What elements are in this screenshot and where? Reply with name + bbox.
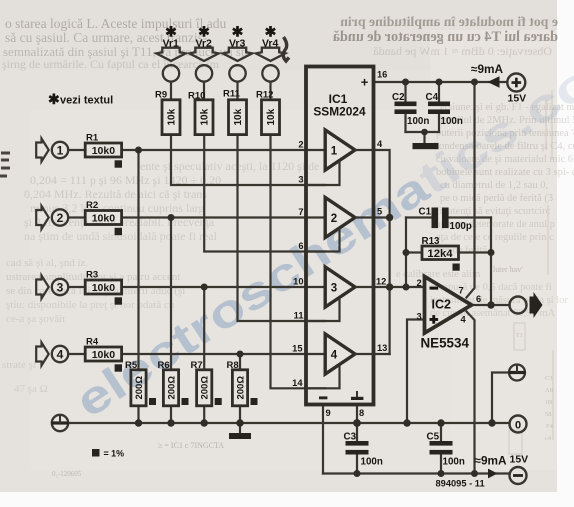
input terminal 1 circle [52, 142, 68, 158]
svg-text:e pot fi modulate în amplitudi: e pot fi modulate în amplitudine prin [340, 14, 558, 29]
wire amp2 ctl inner [306, 229, 340, 252]
svg-text:6: 6 [298, 241, 303, 251]
svg-text:15V: 15V [508, 93, 527, 105]
wire earth terminal to ground bus [492, 373, 509, 424]
svg-text:10k: 10k [167, 108, 178, 125]
svg-text:C4: C4 [426, 92, 439, 103]
VCA amp 4 [325, 334, 355, 374]
IC1 labels [313, 75, 368, 119]
svg-text:≈9mA: ≈9mA [475, 454, 508, 468]
ground bar under C2 C4 [413, 143, 439, 149]
resistor R12 [262, 100, 280, 135]
wire amp outputs to edge [355, 149, 374, 151]
watermark electroschematics.com [66, 24, 574, 428]
svg-text:ente şi speculativ aceşti, la: ente şi speculativ aceşti, la 1120 şi de [140, 159, 320, 173]
wire drop row3 to R7 [203, 287, 205, 370]
wire IC1 pin9 to negative bus [322, 405, 324, 474]
resistor R11 [229, 100, 247, 135]
svg-text:8: 8 [359, 408, 364, 418]
wire R11 column to IC1 pin11 [238, 135, 326, 321]
earth terminal right [509, 365, 526, 381]
input terminal 4 circle [52, 346, 68, 362]
svg-text:3: 3 [417, 312, 422, 322]
wire R5 to ground bus [137, 406, 139, 423]
resistor R5 [131, 370, 146, 406]
svg-text:4: 4 [377, 139, 383, 149]
IC1 inner ground mark [351, 391, 363, 400]
svg-text:10k0: 10k0 [92, 282, 116, 294]
svg-text:100n: 100n [443, 457, 465, 468]
wire IC2 pin4 to negative bus [467, 312, 475, 474]
svg-text:C1: C1 [419, 207, 432, 218]
svg-text:13: 13 [377, 343, 387, 353]
svg-text:✱: ✱ [48, 91, 60, 107]
svg-text:4: 4 [57, 348, 64, 362]
VCA amp 2 [325, 198, 355, 238]
svg-text:R11: R11 [223, 89, 241, 100]
svg-text:894095 - 11: 894095 - 11 [436, 479, 485, 489]
svg-text:10k0: 10k0 [92, 145, 116, 157]
svg-text:58: 58 [545, 411, 552, 418]
svg-text:şirng de urmările. Cu faptul c: şirng de urmările. Cu faptul ca el încea… [2, 57, 220, 71]
negative supply bus [323, 472, 510, 474]
svg-text:R5: R5 [125, 360, 138, 371]
resistor R1 [85, 143, 121, 157]
svg-text:100n: 100n [407, 116, 429, 127]
svg-text:pe o mică perlă de ferită (3: pe o mică perlă de ferită (3 [440, 193, 553, 204]
wire C4 stem [438, 82, 440, 102]
note vezi textul [48, 91, 113, 107]
svg-text:200Ω: 200Ω [236, 376, 247, 400]
svg-text:2: 2 [331, 213, 337, 225]
input terminal 3 circle [52, 279, 68, 295]
svg-text:F4: F4 [546, 423, 554, 430]
svg-text:C3: C3 [344, 432, 357, 443]
wire R7 to ground bus [203, 406, 205, 423]
svg-text:5: 5 [377, 207, 382, 217]
wire IC1 pin8 to ground bus [356, 405, 358, 424]
svg-text:15V: 15V [510, 454, 529, 466]
svg-text:A8: A8 [545, 387, 553, 394]
supply arrow 9mA bottom [488, 469, 498, 479]
svg-text:11: 11 [294, 311, 304, 321]
wire IC1 pin4 output to bus [374, 150, 390, 354]
wire C5 stems [440, 423, 442, 441]
wire drop row1 to R5 [137, 150, 139, 370]
svg-text:14: 14 [292, 378, 303, 388]
IC1 box [306, 67, 374, 405]
svg-text:R1: R1 [86, 133, 99, 144]
svg-text:2: 2 [298, 140, 303, 150]
svg-text:1: 1 [331, 146, 338, 158]
capacitor C4 [426, 92, 463, 127]
wire drop row2 to R6 [170, 218, 172, 370]
wire supply rail pin16 [374, 81, 508, 83]
svg-text:C5: C5 [427, 432, 440, 443]
svg-text:15: 15 [292, 344, 302, 354]
svg-text:strate şi: strate şi [2, 359, 36, 371]
IC1 inner minus mark [319, 396, 327, 399]
svg-text:100p: 100p [450, 221, 472, 232]
svg-text:2: 2 [417, 278, 422, 288]
VCA amp 3 [325, 267, 355, 307]
wire IC1 pin12 output to IC2 pin2 [374, 286, 425, 288]
svg-text:R10: R10 [188, 91, 205, 102]
wire C3 stems [356, 423, 358, 441]
wire R12 column to IC1 pin14 [271, 135, 326, 389]
ground bus [68, 422, 509, 424]
svg-text:10k: 10k [233, 108, 244, 125]
wire amp3 ctl inner [306, 298, 340, 321]
zero terminal [510, 416, 527, 433]
svg-text:aţa de cele ce regulile prin c: aţa de cele ce regulile prin c [436, 232, 554, 243]
wire IC1 pin5 output [374, 216, 390, 218]
svg-text:vezi textul: vezi textul [60, 95, 113, 107]
svg-text:100n: 100n [361, 457, 383, 468]
wire R6 to ground bus [170, 406, 172, 423]
1% squares at R1-R4 [115, 160, 122, 167]
input terminal 1 arrow [36, 139, 49, 162]
wire row3 from input to IC1 pin10 [68, 286, 85, 288]
wire R13 row [406, 251, 422, 253]
svg-text:R12: R12 [256, 90, 273, 101]
svg-text:Observaţie: 0 dBm ≈ 1 mW pe ba: Observaţie: 0 dBm ≈ 1 mW pe bandă [373, 44, 552, 58]
wire IC1 pin13 output [374, 353, 390, 355]
svg-text:47 şa Ω: 47 şa Ω [14, 383, 48, 395]
svg-text:T1: T1 [516, 333, 523, 339]
resistor R3 [85, 280, 121, 294]
capacitor C2 [392, 92, 429, 127]
svg-text:12k4: 12k4 [427, 248, 453, 260]
svg-text:R9: R9 [155, 90, 167, 101]
svg-text:7: 7 [298, 207, 303, 217]
capacitor C5 [427, 432, 465, 468]
supply arrow 9mA top [488, 76, 500, 87]
resistor R6 [163, 370, 178, 406]
resistor R10 [195, 100, 213, 135]
wire row4 from input to IC1 pin15 [68, 353, 85, 355]
ground bar under R8 [229, 423, 251, 439]
svg-text:ştiu: disponibile la preţ şi n: ştiu: disponibile la preţ şi nor odată c… [6, 299, 175, 311]
svg-text:200Ω: 200Ω [167, 376, 178, 400]
svg-text:+: + [361, 75, 369, 90]
svg-text:luter hav': luter hav' [493, 265, 523, 274]
resistor R2 [85, 211, 121, 225]
wire amp4 ctl inner [306, 365, 340, 388]
svg-text:R3: R3 [86, 270, 98, 281]
svg-text:200Ω: 200Ω [200, 376, 211, 400]
wire C2 stem [404, 82, 406, 102]
svg-text:1: 1 [57, 144, 64, 158]
svg-text:10k: 10k [200, 108, 211, 125]
wire feedback right vertical [490, 218, 492, 306]
supply terminal -15V [510, 454, 529, 485]
svg-text:= 1%: = 1% [104, 449, 125, 459]
wire feedback left vertical [405, 218, 407, 288]
svg-text:R7: R7 [191, 360, 203, 371]
resistor R7 [197, 370, 212, 406]
capacitor C3 [344, 432, 383, 468]
svg-text:7: 7 [459, 286, 464, 296]
output arrow [530, 292, 543, 318]
svg-text:C3: C3 [545, 375, 553, 382]
svg-text:R2: R2 [86, 200, 98, 211]
svg-text:IC2: IC2 [432, 298, 452, 312]
svg-text:R8: R8 [227, 360, 239, 371]
left edge ink marks [0, 153, 10, 176]
wire IC2 output [472, 304, 510, 306]
supply terminal +15V [507, 74, 526, 105]
svg-text:6: 6 [476, 294, 481, 304]
wire IC2 pin3 to ground bus [407, 320, 425, 424]
svg-text:16: 16 [377, 70, 387, 80]
wire row1 from input to IC1 pin2 [68, 149, 85, 151]
svg-text:R4: R4 [86, 337, 99, 348]
svg-text:3: 3 [298, 175, 303, 185]
svg-text:C2: C2 [392, 92, 405, 103]
svg-text:3: 3 [331, 283, 337, 295]
stray ink squiggle [283, 37, 289, 61]
resistor R8 [232, 370, 247, 406]
svg-text:R13: R13 [422, 236, 441, 247]
earth terminal left [51, 415, 68, 431]
input terminal 3 arrow [36, 276, 49, 299]
wire row2 from input to IC1 pin7 [68, 216, 85, 218]
svg-text:9: 9 [326, 408, 331, 418]
svg-text:3: 3 [57, 281, 64, 295]
output terminal [510, 297, 527, 314]
VCA amp 1 [325, 130, 355, 170]
input terminal 4 arrow [36, 343, 49, 366]
svg-text:10k0: 10k0 [92, 349, 116, 361]
svg-text:≈9mA: ≈9mA [471, 62, 504, 76]
svg-text:SSM2024: SSM2024 [313, 105, 366, 119]
svg-text:R6: R6 [158, 360, 170, 371]
wire R10 column to IC1 pin6 [204, 135, 325, 252]
input terminal 2 arrow [36, 206, 49, 229]
wire C1 row [406, 216, 432, 218]
note 1% legend [92, 449, 124, 459]
svg-text:100n: 100n [441, 116, 463, 127]
junction dots [135, 147, 142, 154]
resistor R13 [422, 236, 460, 271]
svg-text:fii atenţi să evitaţi scurtcir: fii atenţi să evitaţi scurtcirc [436, 206, 551, 217]
svg-text:12: 12 [376, 277, 386, 287]
svg-text:200Ω: 200Ω [134, 376, 145, 400]
wire amp1 ctl inner [306, 161, 340, 185]
svg-text:10: 10 [293, 277, 303, 287]
svg-text:09: 09 [546, 399, 553, 406]
input terminal 2 circle [52, 209, 68, 225]
wire IC2 pin7 to supply rail [467, 82, 475, 298]
wire R8 to ground bus [239, 406, 241, 423]
wire C2 C4 join to ground [406, 131, 440, 133]
svg-text:0,204 MHz. Rezultă de aici că: 0,204 MHz. Rezultă de aici că şi trans [24, 187, 207, 201]
svg-text:4: 4 [331, 350, 338, 362]
resistor R4 [85, 347, 121, 361]
svg-text:o starea logică L. Aceste impu: o starea logică L. Aceste impulsuri îl a… [5, 16, 226, 31]
svg-text:e calibrare este alim: e calibrare este alim [396, 269, 480, 280]
capacitor C1 [419, 207, 472, 233]
svg-text:darea lui T4 cu un generator d: darea lui T4 cu un generator de undă [333, 29, 558, 45]
wire R9 column to IC1 pin3 [171, 135, 325, 185]
svg-text:2: 2 [57, 211, 64, 225]
svg-text:10k0: 10k0 [92, 213, 116, 225]
svg-text:0₁-120605: 0₁-120605 [52, 470, 82, 478]
svg-text:0: 0 [515, 420, 521, 432]
svg-text:NE5534: NE5534 [421, 336, 470, 351]
svg-text:ce-a şa şovăit: ce-a şa şovăit [6, 313, 65, 325]
1% squares at R5-R8 [149, 398, 156, 405]
svg-text:≥ = IC1 c 7INGCTA: ≥ = IC1 c 7INGCTA [158, 441, 224, 450]
wire drop row4 to R8 [239, 354, 241, 370]
svg-text:cad să şi al, şnd iz.: cad să şi al, şnd iz. [6, 257, 88, 269]
resistor R9 [162, 100, 180, 135]
svg-text:c4: c4 [545, 435, 552, 442]
svg-text:4: 4 [461, 315, 467, 325]
op-amp IC2 [425, 277, 472, 334]
svg-text:10k: 10k [266, 108, 277, 125]
